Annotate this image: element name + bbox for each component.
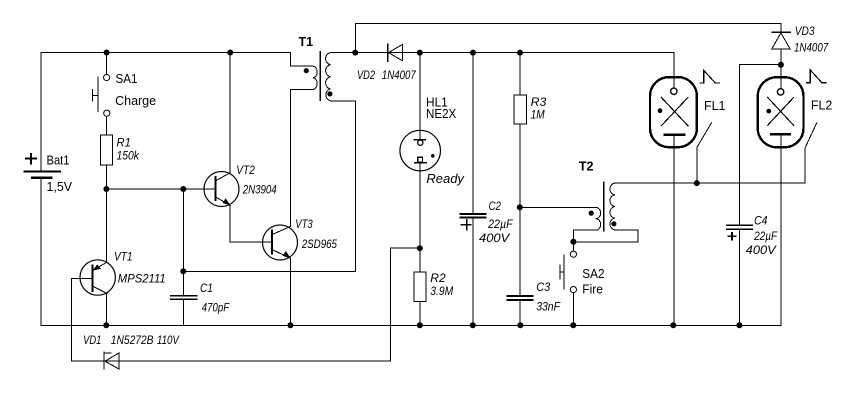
- wire SA2 to ground rail: [572, 293, 574, 326]
- node C3 ground junction: [517, 322, 523, 328]
- node SA2 top junction: [570, 239, 576, 245]
- wire C1 column upper: [182, 189, 184, 295]
- transformer T2: [573, 182, 638, 242]
- wire top rail to SA1: [106, 53, 108, 75]
- resistor R2: [414, 272, 426, 301]
- wire VT3 collector to T1 primary: [289, 89, 291, 226]
- wire VT2 emitter to VT3 base: [230, 206, 272, 243]
- wire VD3 node to C4 column: [740, 65, 781, 225]
- node C2 top rail junction: [470, 50, 476, 56]
- node C1 column tap: [180, 186, 186, 192]
- svg-text:SA2: SA2: [582, 267, 604, 281]
- node feedback tap: [180, 268, 186, 274]
- node FL1 cathode ground junction: [670, 322, 676, 328]
- wire node to R2: [419, 248, 421, 272]
- node R1 bottom junction: [103, 186, 109, 192]
- wire VT3 emitter to ground rail: [289, 258, 291, 325]
- node VT2 collector top rail: [227, 50, 233, 56]
- node VT1 collector ground junction: [103, 322, 109, 328]
- node SA1 tap on top rail: [104, 50, 110, 56]
- pulse icon FL1: [700, 70, 720, 83]
- wire riser to VD3 top line: [356, 24, 781, 53]
- svg-text:VD2: VD2: [357, 68, 375, 82]
- wire R1 to node: [106, 165, 108, 189]
- svg-text:VD1: VD1: [83, 333, 101, 347]
- transformer T1: [291, 52, 333, 101]
- flash lamp FL1: [650, 53, 697, 326]
- wire C2 to ground rail: [472, 217, 474, 325]
- svg-text:400V: 400V: [746, 243, 777, 257]
- node VD3 output junction: [778, 62, 784, 68]
- svg-text:R1: R1: [117, 135, 131, 149]
- svg-text:Ready: Ready: [426, 171, 465, 186]
- svg-text:110V: 110V: [157, 333, 180, 347]
- wire top rail to R3: [519, 53, 521, 95]
- wire node to SA2: [572, 242, 574, 251]
- transistor VT2: [204, 172, 239, 207]
- svg-text:T2: T2: [579, 159, 594, 173]
- node VT3 emitter ground junction: [287, 322, 293, 328]
- svg-text:C3: C3: [536, 280, 550, 294]
- svg-text:SA1: SA1: [116, 72, 138, 86]
- node SA2 ground junction: [570, 322, 576, 328]
- svg-text:VT1: VT1: [114, 250, 133, 264]
- wire VD1 rail up to R2 node: [391, 248, 420, 361]
- svg-text:FL2: FL2: [811, 99, 832, 113]
- wire FL2 trigger electrode: [805, 123, 817, 183]
- wire C3 to ground rail: [519, 300, 521, 325]
- capacitor C2: [461, 214, 486, 230]
- svg-text:1M: 1M: [531, 108, 545, 122]
- wire T2 secondary trigger line: [615, 182, 805, 184]
- svg-text:1N4007: 1N4007: [382, 68, 417, 82]
- wire node to C3: [519, 207, 521, 295]
- switch SA2: [560, 251, 577, 293]
- wire C1 to ground rail: [182, 299, 184, 325]
- pulse icon FL2: [807, 70, 827, 83]
- svg-text:470pF: 470pF: [202, 301, 230, 315]
- wire VT1 collector to ground rail: [106, 293, 108, 325]
- switch SA1: [93, 74, 110, 116]
- svg-text:VT3: VT3: [295, 217, 313, 231]
- wire R3 to T2 node: [519, 124, 521, 207]
- wire R3 node to T2 primary: [520, 206, 596, 208]
- svg-text:1N5272B: 1N5272B: [111, 333, 154, 347]
- node R2 top junction: [417, 245, 423, 251]
- node R2 ground junction: [417, 322, 423, 328]
- wire bottom ground rail: [41, 324, 781, 326]
- svg-text:VD3: VD3: [795, 24, 815, 38]
- svg-text:400V: 400V: [479, 231, 510, 245]
- svg-text:Fire: Fire: [582, 282, 603, 296]
- wire base rail to VT2: [107, 188, 216, 190]
- svg-text:VT2: VT2: [236, 163, 255, 177]
- svg-text:C4: C4: [754, 213, 768, 227]
- svg-text:33nF: 33nF: [536, 299, 560, 313]
- diode VD1 (zener): [104, 352, 119, 369]
- wire VD3 node to FL2: [780, 65, 782, 89]
- svg-text:T1: T1: [299, 35, 314, 49]
- wire top rail to C2: [472, 53, 474, 213]
- diode VD3: [772, 32, 790, 65]
- node C2 ground junction: [470, 322, 476, 328]
- wire battery bottom to ground rail: [40, 178, 42, 325]
- svg-text:Charge: Charge: [115, 94, 156, 108]
- wire top rail to HL1: [419, 53, 421, 131]
- wire HL1 to R2 node: [419, 171, 421, 248]
- capacitor C3: [508, 296, 533, 300]
- wire T1 secondary top rail: [331, 52, 674, 54]
- svg-text:FL1: FL1: [704, 99, 725, 113]
- wire R2 to ground rail: [419, 301, 421, 325]
- svg-text:22µF: 22µF: [487, 217, 513, 231]
- neon lamp HL1: [400, 130, 441, 171]
- node T2 primary tap: [517, 204, 523, 210]
- svg-text:1,5V: 1,5V: [47, 180, 73, 194]
- wire VT1 base down to VD1 rail: [70, 278, 72, 361]
- wire top rail left segment: [41, 53, 291, 172]
- svg-text:22µF: 22µF: [753, 229, 777, 243]
- wire FL1 trigger electrode: [697, 123, 712, 183]
- flash lamp FL2: [758, 77, 804, 325]
- wire T1 secondary bottom feedback: [183, 101, 355, 271]
- svg-text:MPS2111: MPS2111: [118, 272, 166, 286]
- svg-text:2N3904: 2N3904: [242, 183, 277, 197]
- wire SA1 to R1: [106, 116, 108, 135]
- node FL1 trigger tap: [694, 180, 700, 186]
- capacitor C4: [727, 225, 752, 239]
- node R3 top rail junction: [517, 50, 523, 56]
- resistor R3: [514, 95, 526, 124]
- svg-text:3.9M: 3.9M: [430, 284, 453, 298]
- svg-text:150k: 150k: [117, 149, 140, 163]
- svg-text:C2: C2: [489, 199, 502, 213]
- capacitor C1: [171, 296, 197, 300]
- node top-rail riser junction: [352, 50, 358, 56]
- transistor VT1: [71, 260, 115, 295]
- transistor VT3: [263, 225, 298, 260]
- wire node down to VT1 emitter: [106, 189, 108, 262]
- wire VT2 collector to top rail: [229, 53, 231, 173]
- svg-text:Bat1: Bat1: [47, 154, 70, 168]
- svg-text:NE2X: NE2X: [426, 107, 457, 121]
- diode VD2: [388, 44, 403, 61]
- node C4 ground junction: [736, 322, 742, 328]
- battery Bat1: [24, 154, 60, 178]
- svg-text:1N4007: 1N4007: [794, 41, 829, 55]
- svg-text:2SD965: 2SD965: [301, 237, 337, 251]
- node HL1 tap on top rail: [417, 50, 423, 56]
- svg-text:C1: C1: [200, 281, 213, 295]
- resistor R1: [100, 135, 112, 165]
- wire VD1 rail: [71, 360, 390, 362]
- wire C4 to ground rail: [739, 229, 741, 325]
